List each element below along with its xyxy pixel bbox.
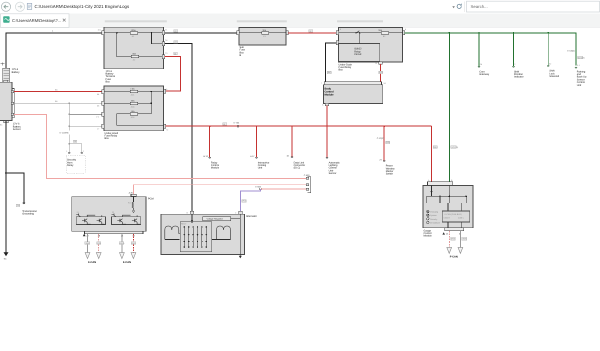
data link connector DLC	[308, 177, 311, 193]
SEC_PINK	[14, 114, 310, 212]
battery BAT1	[3, 68, 10, 83]
ground G-1	[4, 252, 9, 256]
active tab	[1, 14, 70, 28]
svg-text:Box: Box	[106, 81, 111, 84]
drop power window master switch	[383, 125, 385, 127]
svg-text:F-CAN: F-CAN	[123, 261, 131, 264]
relay contact symbol	[356, 31, 359, 33]
svg-text:C:\Users\ARM\Desktop\1-City 20: C:\Users\ARM\Desktop\1-City 2021 Engine\…	[35, 4, 130, 9]
svg-text:4: 4	[52, 30, 54, 33]
svg-text:B6: B6	[55, 100, 58, 103]
pink wire battery sensor to DLC pin 1	[14, 114, 307, 178]
off-page arrow pair1 RD	[96, 253, 101, 259]
svg-text:28: 28	[98, 235, 101, 238]
wire C-1 down to security horn relay	[68, 135, 70, 153]
internal junction	[116, 32, 118, 34]
svg-text:7: 7	[321, 82, 323, 85]
node shift lock solenoid	[547, 32, 549, 34]
svg-text:30A: 30A	[262, 29, 266, 32]
tab band	[0, 14, 600, 28]
F-CAN red wire	[448, 231, 450, 248]
CAN logic block	[448, 203, 462, 211]
svg-text:7.5A: 7.5A	[130, 88, 135, 91]
svg-text:1-5: 1-5	[96, 116, 100, 119]
SEC_PCM	[72, 197, 154, 264]
svg-text:(LT GN): (LT GN)	[578, 56, 585, 59]
svg-text:3-1: 3-1	[577, 64, 581, 67]
CAN driver block 1	[76, 217, 105, 225]
svg-text:C-13(F): C-13(F)	[377, 137, 384, 140]
svg-text:(RD): (RD)	[97, 242, 102, 245]
green IG wire from under-dash to right loads	[405, 33, 576, 66]
svg-text:(WH): (WH)	[120, 242, 125, 245]
wire T4 turning down to alternator (black)	[165, 44, 192, 211]
svg-text:RECT: RECT	[181, 223, 187, 226]
svg-text:(RD): (RD)	[379, 71, 384, 74]
svg-text:21: 21	[446, 232, 449, 235]
svg-text:1: 1	[66, 150, 68, 153]
internal branch to middle pin	[152, 33, 164, 44]
svg-text:PCM: PCM	[148, 198, 154, 201]
svg-text:Indicator: Indicator	[514, 76, 524, 79]
svg-text:Grounding: Grounding	[22, 213, 34, 216]
inline connector on bus	[223, 123, 227, 126]
alternator	[161, 214, 245, 254]
sensor output connector bracket	[12, 89, 14, 118]
svg-text:(WH): (WH)	[462, 238, 467, 241]
svg-text:49: 49	[132, 235, 135, 238]
gauge bottom connector	[445, 228, 464, 231]
F-CAN pair 1 white wire	[87, 234, 89, 253]
SEC_CHROME	[0, 0, 600, 28]
drop interactive control unit	[256, 125, 258, 127]
wire under-dash left pin to BCM (black)	[326, 43, 337, 82]
svg-text:F-CAN (CAN-BUS): F-CAN (CAN-BUS)	[445, 213, 462, 216]
internal line with fuse	[239, 32, 286, 34]
sub fuse box B	[239, 28, 286, 45]
gauge control module top connector	[428, 182, 453, 186]
SEC_UNDERHOOD	[96, 86, 438, 182]
separator before search	[464, 2, 466, 13]
svg-text:(RD): (RD)	[451, 238, 456, 241]
internal branch down	[117, 33, 164, 57]
svg-text:Module: Module	[325, 93, 335, 96]
node shift position indicator	[513, 32, 515, 34]
BCM bottom pin	[325, 103, 328, 105]
under-dash fuse/relay box	[339, 28, 403, 63]
tab favicon	[3, 16, 9, 22]
branch to relay pin 2	[69, 144, 82, 153]
security horn relay (dashed outline)	[66, 155, 85, 173]
fuse F1 30A	[262, 32, 269, 35]
stator winding right	[217, 226, 231, 240]
bus corner down to gauge module (red)	[431, 126, 433, 182]
browser address bar background	[0, 0, 600, 14]
gauge control module	[423, 186, 473, 228]
SEC_ALT	[161, 211, 257, 258]
SEC_GAUGE	[423, 179, 473, 259]
indicator lamps	[427, 210, 430, 223]
svg-text:Unit: Unit	[577, 84, 582, 87]
drop data link connector power	[291, 125, 293, 127]
sensor bottom pin to ground wire	[4, 121, 8, 123]
gray tap vertical C-1	[68, 103, 70, 130]
svg-text:Alternator: Alternator	[246, 215, 257, 218]
svg-text:Gateway: Gateway	[479, 73, 490, 76]
svg-text:2: 2	[83, 150, 85, 153]
red accessory bus from under-hood box	[166, 125, 432, 127]
svg-text:(LT GN): (LT GN)	[451, 146, 458, 149]
internal B+ arrow	[191, 214, 193, 223]
svg-text:Security: Security	[430, 218, 437, 221]
svg-text:(RD): (RD)	[433, 146, 438, 149]
drop relay control module	[209, 125, 211, 127]
svg-text:Circuit: Circuit	[354, 53, 361, 56]
tab close x	[63, 19, 66, 22]
svg-text:Battery: Battery	[12, 71, 21, 74]
svg-text:A: A	[322, 104, 324, 107]
svg-text:A 17: A 17	[250, 155, 255, 158]
wire sub fuse box to under-dash box (red)	[288, 32, 336, 34]
green drop to gauge control module	[448, 33, 450, 182]
svg-text:27: 27	[380, 158, 383, 161]
svg-text:24: 24	[383, 82, 386, 85]
inline connector on red wire	[309, 30, 313, 33]
svg-text:C-13(A): C-13(A)	[567, 50, 575, 53]
wire battery positive to terminal fuse box	[6, 33, 104, 69]
svg-text:17: 17	[97, 128, 100, 131]
page icon in address bar	[27, 3, 32, 9]
svg-text:56: 56	[97, 105, 100, 108]
pink wire connector to DLC pin 3	[261, 188, 307, 190]
F-CAN pair 2 red wire	[132, 234, 134, 253]
svg-text:(BK): (BK)	[327, 71, 331, 74]
svg-text:Module: Module	[424, 235, 433, 238]
svg-text:C-1 (WH): C-1 (WH)	[60, 132, 69, 135]
svg-text:30A: 30A	[378, 29, 382, 32]
wire gray tap to box pin 3	[69, 125, 104, 127]
voltage regulator	[203, 217, 231, 221]
internal power rail	[432, 186, 467, 197]
svg-text:(RD): (RD)	[386, 141, 391, 144]
svg-text:B1: B1	[0, 124, 3, 127]
address dropdown arrow	[452, 6, 455, 8]
svg-text:F-CAN: F-CAN	[450, 256, 458, 259]
svg-text:Immobilizer: Immobilizer	[430, 221, 441, 224]
svg-text:C-734: C-734	[234, 122, 241, 125]
CAN driver block 2	[112, 217, 141, 225]
internal feed line	[104, 32, 164, 34]
svg-text:23: 23	[121, 235, 124, 238]
wire branch to transmission ground	[6, 173, 24, 203]
svg-text:(DLC): (DLC)	[294, 167, 301, 170]
fuse B2 30A	[381, 32, 388, 35]
svg-text:CAN L: CAN L	[458, 216, 465, 219]
off-page arrow pair1 WH	[85, 253, 90, 259]
svg-text:Sensor: Sensor	[13, 128, 21, 131]
svg-text:B: B	[376, 62, 378, 65]
purple wire alternator to inline connector	[240, 189, 260, 213]
svg-text:Module: Module	[211, 167, 220, 170]
green drop core gateway	[478, 33, 480, 66]
svg-text:(RD): (RD)	[132, 242, 137, 245]
svg-text:(WH): (WH)	[85, 242, 90, 245]
F-CAN white wire	[459, 231, 461, 248]
svg-text:Charging: Charging	[430, 211, 438, 214]
svg-text:Solenoid: Solenoid	[549, 75, 559, 78]
svg-text:CAN H: CAN H	[444, 216, 451, 219]
node gauge feed	[449, 32, 451, 34]
svg-text:B5: B5	[55, 88, 58, 91]
fuse at PCM supply	[131, 194, 136, 196]
svg-text:27: 27	[87, 235, 90, 238]
internal row 1 with fuse A2-1	[104, 91, 164, 93]
SEC_TOP	[98, 27, 587, 211]
svg-text:16: 16	[287, 155, 290, 158]
off-page arrow pair2 RD	[131, 253, 136, 259]
SEC_LEFT	[0, 30, 104, 261]
svg-text:F-CAN: F-CAN	[88, 261, 96, 264]
pink wire PCM K-line bus to DLC pin 2	[134, 184, 308, 186]
svg-text:30A: 30A	[131, 99, 135, 102]
svg-text:T3: T3	[165, 52, 168, 55]
faint background strips in tab band	[105, 20, 167, 22]
svg-text:(PU): (PU)	[242, 200, 246, 203]
node core gateway	[478, 32, 480, 34]
stator winding left	[165, 226, 181, 240]
battery sensor module	[0, 82, 12, 120]
svg-text:Voltage Regulator: Voltage Regulator	[207, 218, 224, 221]
pink corner down to PCM fuse	[133, 185, 135, 195]
F-CAN pair 1 red wire	[98, 234, 100, 253]
right pins T1 T4 T3	[162, 31, 164, 35]
transmission ground terminal T-6	[16, 204, 20, 207]
svg-text:C-563: C-563	[304, 174, 311, 177]
ground wire from battery sensor down	[5, 121, 7, 253]
F-CAN pair 2 white wire	[121, 234, 123, 253]
svg-text:15A: 15A	[131, 110, 135, 113]
under-hood fuse/relay box	[104, 86, 164, 131]
svg-text:100A: 100A	[131, 29, 136, 32]
svg-text:4: 4	[405, 28, 407, 31]
internal supply chain	[133, 197, 135, 202]
wire gray tap to box pin 2	[69, 113, 104, 115]
svg-text:B 13: B 13	[204, 155, 209, 158]
wire battery sensor sense line (gray)	[14, 102, 104, 104]
svg-text:2: 2	[514, 63, 516, 66]
off-page arrow gauge WH	[458, 247, 463, 253]
internal row 3 with fuse A2-8 feeding bus	[117, 114, 164, 126]
internal junction column	[150, 92, 152, 114]
off-page arrow pair2 WH	[120, 253, 125, 259]
inline splice marker on battery feed	[1, 62, 5, 65]
green drop shift lock solenoid	[547, 33, 549, 66]
svg-text:G1: G1	[4, 258, 8, 261]
wire T3 red loop into under-hood box	[165, 57, 181, 91]
off-page arrow gauge RD	[447, 247, 452, 253]
green drop shift position indicator	[513, 33, 515, 66]
svg-text:Search...: Search...	[471, 4, 488, 9]
internal feed line	[339, 32, 403, 34]
svg-text:Switch: Switch	[386, 173, 394, 176]
svg-text:B: B	[240, 54, 242, 57]
fuse A1-1 100A	[130, 32, 137, 35]
svg-text:Sensor: Sensor	[329, 172, 337, 175]
svg-text:Box: Box	[105, 137, 110, 140]
svg-text:T4: T4	[165, 39, 168, 42]
IG/IG2 relay circuit inner box	[339, 44, 380, 62]
alternator case ground	[239, 247, 241, 256]
fuse A1-2 30A	[131, 55, 138, 58]
svg-text:C:\Users\ARM\Desktop\?...: C:\Users\ARM\Desktop\?...	[12, 18, 61, 23]
search box	[467, 1, 600, 12]
body control module BCM	[324, 82, 381, 85]
svg-text:101: 101	[98, 28, 102, 31]
svg-text:64: 64	[97, 93, 100, 96]
svg-text:Unit: Unit	[258, 167, 263, 170]
wire T1 to sub fuse box (black)	[165, 32, 239, 34]
refresh icon	[457, 4, 461, 9]
internal row 2 with fuse A2-4	[104, 102, 151, 104]
svg-text:24: 24	[480, 63, 483, 66]
powertrain control module PCM	[72, 197, 146, 232]
wire battery sensor to under-hood box (red B+)	[14, 91, 104, 93]
rectifier diode columns	[184, 226, 206, 248]
svg-text:Relay: Relay	[67, 164, 74, 167]
svg-text:Box: Box	[339, 69, 344, 72]
under-dash bottom pin to BCM (red)	[379, 62, 382, 64]
svg-text:T1: T1	[165, 29, 168, 32]
svg-text:72: 72	[166, 129, 169, 132]
svg-text:32: 32	[549, 63, 552, 66]
12V-6 battery terminal fuse box	[104, 27, 164, 69]
wire BCM to lighting sensor through bus	[326, 106, 328, 158]
PCM bottom connector bar	[85, 231, 144, 234]
rectifier bridge box	[180, 222, 211, 252]
svg-text:System: System	[430, 214, 437, 217]
forward button	[15, 2, 24, 11]
back button	[1, 2, 10, 11]
connector arrow A	[83, 234, 86, 237]
svg-text:C-562: C-562	[255, 186, 262, 189]
node on sense line	[68, 102, 70, 104]
svg-text:30A: 30A	[132, 53, 136, 56]
